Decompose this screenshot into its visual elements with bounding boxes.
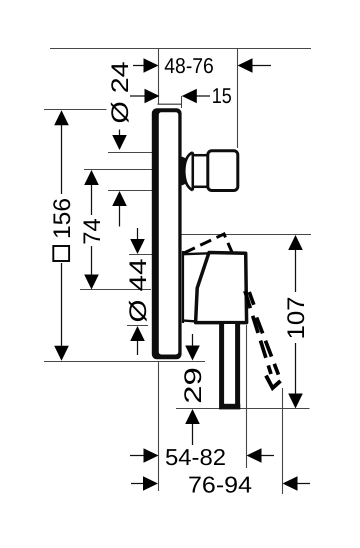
dimension diameter-24 column <box>119 130 121 227</box>
knob end cap <box>208 151 238 191</box>
dimension 15 <box>130 95 210 97</box>
wire lever end long line <box>176 408 310 410</box>
ghost lever dashed outline <box>245 291 279 375</box>
hub adapter lines to plate <box>184 253 210 321</box>
wire front face vertical extension top <box>158 49 160 105</box>
wire plate bottom long line <box>44 361 205 363</box>
ghost hub top dashed outline <box>184 234 233 255</box>
escutcheon plate side view <box>152 108 182 359</box>
knob flare <box>182 152 193 190</box>
wire knob face vertical extension <box>237 49 239 149</box>
svg-text:76-94: 76-94 <box>188 472 252 498</box>
knob cylinder <box>193 155 208 187</box>
svg-text:Ø 24: Ø 24 <box>107 62 134 124</box>
svg-text:48-76: 48-76 <box>164 54 214 78</box>
svg-text:107: 107 <box>283 297 310 340</box>
dimension 54-82 row <box>130 455 274 457</box>
wire lever axis extension line <box>80 289 151 291</box>
wire square-156 top extension line <box>44 109 107 111</box>
dimension 76-94 row <box>131 483 310 485</box>
svg-text:74: 74 <box>79 218 106 245</box>
ghost lever tip cap dash <box>266 376 281 388</box>
wire knob top extension line <box>108 152 153 154</box>
lever arm solid <box>219 324 240 409</box>
handle hub body <box>196 253 247 323</box>
svg-text:Ø 44: Ø 44 <box>125 259 152 323</box>
wire knob bottom extension line <box>108 190 153 192</box>
wire ghost tip vertical extension <box>282 388 284 494</box>
svg-text:156: 156 <box>49 198 76 239</box>
svg-text:54-82: 54-82 <box>165 444 226 470</box>
wire hub edge vertical extension <box>246 325 248 468</box>
wire front face vertical extension bottom <box>158 362 160 492</box>
svg-text:15: 15 <box>212 84 232 108</box>
wire knob axis extension line <box>84 169 154 171</box>
wire top border line <box>50 48 311 50</box>
dimension 29 column <box>192 334 194 445</box>
plate back top line <box>158 103 182 105</box>
dimension 107 column <box>295 250 297 395</box>
dimension square-156 column <box>61 124 63 347</box>
wire hub bottom extension line <box>127 325 148 327</box>
dimension diameter-44 column <box>137 228 139 355</box>
dimension 74 column <box>91 184 93 276</box>
sleeve edge behind hub <box>182 251 184 323</box>
wire plate back vertical extension <box>181 96 183 108</box>
wire ghost apex extension line <box>181 234 311 236</box>
dimension 48-76 top <box>133 65 271 67</box>
svg-text:29: 29 <box>180 367 207 404</box>
wire hub top extension line <box>129 254 152 256</box>
